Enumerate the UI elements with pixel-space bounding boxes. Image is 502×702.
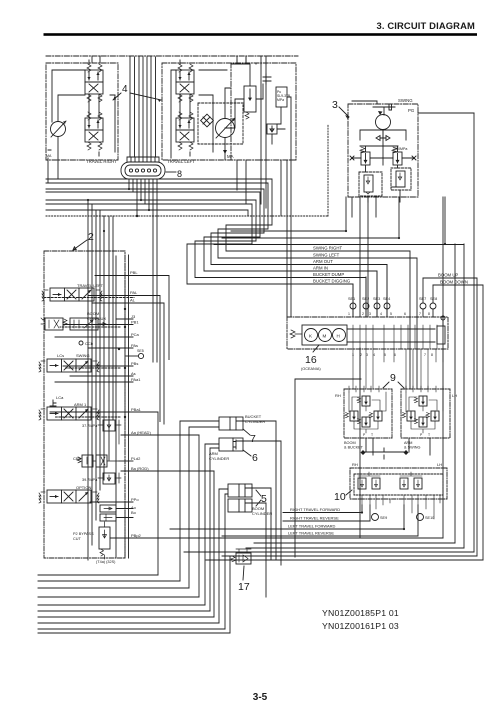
svg-text:LCa: LCa [56,395,64,400]
pressure switch SE3 [374,303,380,309]
ladder bottom-right rung y548 [246,547,464,549]
pilot dotted line y216 [46,124,328,216]
svg-text:SWING: SWING [76,353,90,358]
svg-text:TRAVEL LEFT: TRAVEL LEFT [167,159,195,164]
arm 1 spool [39,407,99,420]
gallery port ticks [353,325,437,349]
svg-text:OPTION: OPTION [76,485,91,490]
wire return run y244 [214,113,474,552]
svg-text:3-5: 3-5 [253,692,268,702]
main pump circle [216,119,235,138]
swivel joint inner [125,165,161,176]
ladder bottom-left rung y623 [38,622,219,624]
wire return run y231 [231,197,443,538]
svg-text:SE1: SE1 [348,297,355,301]
valve item 17 [236,553,251,564]
svg-text:BOOM UP: BOOM UP [438,273,458,278]
port line PLd2 [119,460,133,462]
svg-text:RIGHT TRAVEL FORWARD: RIGHT TRAVEL FORWARD [290,507,340,512]
PG line to right ladder [418,112,474,114]
ladder bottom-left rung y597 [38,596,199,598]
svg-text:3. CIRCUIT DIAGRAM: 3. CIRCUIT DIAGRAM [376,20,475,31]
svg-text:4: 4 [122,84,128,95]
svg-text:LEFT TRAVEL FORWARD: LEFT TRAVEL FORWARD [288,524,336,529]
pressure switch SE1 [350,303,356,309]
feed riser x199 [198,435,200,597]
feed riser x189 [189,427,219,588]
wire arm out pilot staircase [46,189,387,317]
svg-text:17: 17 [238,581,250,593]
ladder bottom-left rung y581 [38,580,180,582]
port line PB1 [63,324,133,326]
svg-text:PLd2: PLd2 [131,456,141,461]
port line PPo [90,501,133,503]
svg-text:RIGHT TRAVEL REVERSE: RIGHT TRAVEL REVERSE [290,516,339,521]
svg-text:PBL: PBL [130,270,138,275]
ladder bottom-left rung y605 [38,604,205,606]
LH reducing valve left [402,411,415,421]
travel right internal wires [48,60,115,183]
svg-text:M: M [323,334,327,339]
junction travel line a [361,511,363,513]
divider dash-dot [230,63,232,160]
solenoid K [305,329,318,342]
straight travel valve [45,318,63,330]
svg-text:RH: RH [352,462,358,467]
junction travel line b [403,528,405,530]
left sub valve [364,175,373,192]
feed riser x180 [180,421,219,581]
svg-text:2: 2 [88,231,94,243]
svg-text:3: 3 [369,312,371,316]
leader of 7 [243,429,250,435]
junction pg branch [444,243,446,245]
cylinder right links [248,421,281,597]
RH internal links [349,392,386,433]
solenoid manifold body [302,325,347,345]
check valve pair upper right [263,74,271,84]
wire left travel reverse [222,505,418,536]
relief valve left [360,147,370,165]
ladder bottom-left rung y611 [38,610,210,612]
svg-text:Ba (ROD): Ba (ROD) [131,466,149,471]
svg-text:5: 5 [390,312,392,316]
svg-text:ARM IN: ARM IN [313,266,328,271]
feed riser x230 [229,556,231,633]
dashed internal feed lines [124,255,126,558]
page continuation dash-dot line [46,55,298,57]
wire swing right pilot staircase [46,179,410,389]
LH reducing valve top [414,396,427,406]
svg-text:10: 10 [334,491,346,503]
svg-text:TRAVEL LEFT: TRAVEL LEFT [77,283,104,288]
junction at swing return right [398,237,400,239]
travel pilot inner dashed body [354,474,443,495]
travel left internal wires [171,60,227,158]
travel left + main pump box (dash-dot border) [162,63,296,160]
ladder bottom-left rung y588 [38,587,189,589]
arm relief 37.7 [103,420,115,431]
port line PBs [63,365,133,367]
travel damper RH right [372,478,380,489]
wire bucket digging pilot staircase [46,204,353,317]
svg-text:Bo: Bo [131,510,137,515]
leader of 10 [346,490,352,495]
swing internal wires [366,130,406,202]
leader line of 2 [73,240,87,250]
svg-text:LH: LH [437,462,442,467]
svg-text:SWING LEFT: SWING LEFT [313,253,340,258]
end fitting [437,326,445,344]
pressure switch SE10 [417,514,424,521]
ladder bottom-right rung y556 [222,555,477,557]
leader lines of label 4 [113,93,161,100]
swivel joint ports row [127,157,159,162]
svg-text:6: 6 [252,452,258,464]
port line Bo [116,517,133,519]
port line Ao [116,508,133,510]
svg-text:ARM: ARM [404,441,412,445]
RH reducing valve left [345,411,358,421]
ladder bottom-left rung y629 [38,628,225,630]
ladder bottom-left rung y633 [38,632,230,634]
svg-text:BOOM: BOOM [344,441,356,445]
wire spare pilot staircase [46,210,248,216]
crossed port marks [350,156,416,160]
junction bundle tee b [140,199,142,201]
port line Ba [121,470,214,472]
ladder bottom-right rung y543 [254,542,455,544]
wire swing left pilot staircase [46,183,417,389]
ladder bottom-left rung y575 [38,574,158,576]
ladder bottom-left rung y617 [38,616,214,618]
svg-text:PAL: PAL [130,290,138,295]
LH reducing valve right [426,411,439,421]
solenoid outputs down [353,349,443,389]
svg-text:8: 8 [431,353,433,357]
LCa check [50,400,56,406]
remote control valve RH box (dash-dot) [344,389,392,438]
port line PAs [88,347,133,349]
lower relief pair [267,124,277,134]
boom cylinder lower [228,499,252,512]
wire BOOM UP line [423,278,477,556]
svg-text:PPo: PPo [131,497,139,502]
svg-text:PBa1: PBa1 [131,407,142,412]
svg-text:J3: J3 [131,314,136,319]
svg-text:3: 3 [332,99,338,111]
dashed pilot crossing travel spool [44,297,134,299]
RH reducing valve top [357,396,370,406]
wire return run y238 [222,197,455,543]
svg-text:T: T [428,433,430,437]
RH port ticks [349,386,379,392]
junction bundle tee a [128,188,130,190]
feed riser x219 [219,489,228,623]
header rule [44,33,478,36]
svg-text:PB1: PB1 [131,320,139,325]
svg-text:PCa: PCa [131,332,140,337]
feed rail solid [115,256,117,558]
swing brake symbol [373,104,395,115]
port line PCa [55,336,133,338]
svg-text:P: P [420,433,423,437]
inlet spring [290,330,302,338]
pump swash regulator dashed housing [198,103,243,144]
port line PBa1 [50,411,128,413]
junction bundle tee c [148,209,150,211]
pilot supply bus [295,379,430,557]
port line AL [92,303,164,424]
junction left bus a [87,199,89,201]
svg-text:H: H [337,334,340,339]
relief cross lines [352,146,414,158]
port line As [70,375,133,377]
travel right valve upper [85,64,103,102]
regulator valve [244,86,256,112]
top ports of box B [237,58,246,64]
leaders of 5 [256,490,261,506]
LH internal links [406,392,443,433]
pump drain line MA [225,88,231,160]
travel left spool [42,288,102,301]
svg-text:CYLINDER: CYLINDER [245,419,265,424]
svg-text:CYLINDER: CYLINDER [209,456,229,461]
travel right valve lower [85,112,103,150]
svg-text:& BUCKET: & BUCKET [344,446,364,450]
leader of 16 [313,345,319,352]
ladder bottom-right rung y552 [184,551,474,553]
wire arm in pilot staircase [46,192,377,317]
pressure switch SE4 [384,303,390,309]
CRa holding valve [82,455,93,467]
travel damper RH left [358,478,366,489]
anti-drift valve sub-box left [359,172,382,196]
svg-text:LEFT TRAVEL REVERSE: LEFT TRAVEL REVERSE [288,531,334,536]
pump small swash symbol [203,117,210,124]
feed riser x214 [213,471,215,617]
make-up check valves [376,136,390,141]
LH pedal link [400,472,422,487]
svg-text:SWING RIGHT: SWING RIGHT [313,246,342,251]
svg-text:8: 8 [428,312,430,316]
swing box bottom stubs [352,197,376,217]
anti-drift valve sub-box right [391,168,411,190]
swing box feed lines down [360,197,368,317]
junction left bus b [103,230,105,232]
swing motor ports [360,130,406,140]
svg-text:PAs: PAs [131,343,138,348]
wire pump pilot verticals from box B [237,160,291,317]
RH reducing valve right [369,411,382,421]
port rail [128,255,130,558]
svg-text:& SWING: & SWING [404,446,421,450]
svg-text:AL: AL [130,298,136,303]
boom conflux spool [70,318,98,330]
svg-text:YN01Z00161P1 03: YN01Z00161P1 03 [322,621,399,631]
travel right motor [51,122,66,137]
right bus inside box B [261,64,291,160]
svg-text:MA: MA [227,154,234,159]
feed riser x205 [205,444,219,605]
RH reducing valve bottom [357,417,370,427]
svg-text:4: 4 [380,312,382,316]
svg-text:SE10: SE10 [425,516,434,520]
svg-text:(OCEANIA): (OCEANIA) [301,367,321,371]
junction dots on rail [124,308,126,310]
pressure switch SE2 [363,303,369,309]
svg-text:SE9: SE9 [380,516,387,520]
junction at swing return left [345,230,347,232]
svg-text:ARM OUT: ARM OUT [313,259,333,264]
feed riser x210 [210,448,219,611]
ladder bottom-right rung y560 [206,559,483,561]
riser stubs box B [237,56,266,64]
port line PAL [88,296,160,422]
right sub valve [396,171,405,187]
pilot supply node diamonds [361,450,409,455]
ladder bottom-right rung y538 [262,537,443,539]
svg-text:SWING: SWING [398,98,413,103]
svg-text:CYLINDER: CYLINDER [252,511,272,516]
pressure switch SE5 [138,353,143,358]
svg-text:P: P [363,433,366,437]
svg-text:ARM 1: ARM 1 [74,402,87,407]
control valve block 2 border (dash-dot) [44,251,125,558]
svg-text:SE5: SE5 [137,349,144,353]
svg-text:7: 7 [250,433,256,445]
feed riser x225 [225,494,228,629]
svg-text:BOOM DOWN: BOOM DOWN [440,280,468,285]
pressure switch SE8 [430,303,436,309]
travel pilot valve block 10 (dash-dot) [350,468,447,499]
svg-text:SE8: SE8 [430,297,437,301]
swing top line [352,101,377,104]
svg-text:CCb: CCb [85,341,94,346]
svg-text:BUCKET DUMP: BUCKET DUMP [313,272,344,277]
svg-text:(T4a) (32S): (T4a) (32S) [96,560,116,564]
svg-text:7: 7 [419,312,421,316]
svg-text:K: K [309,334,312,339]
solenoid M [319,329,332,342]
solenoid box Pu [276,87,287,107]
svg-text:MPa: MPa [277,98,284,102]
svg-text:6: 6 [404,312,406,316]
swing motor circle [376,115,391,130]
svg-text:16: 16 [305,354,317,366]
port line Aa [121,434,199,436]
svg-text:39.7MPa: 39.7MPa [82,478,98,482]
swing motor box (dash-dot border) [348,104,418,197]
svg-text:37.7MPa: 37.7MPa [82,424,98,428]
travel left valve upper [176,64,194,102]
riser bundle above swivel joint [130,57,156,157]
svg-text:BUCKET DIGGING: BUCKET DIGGING [313,279,351,284]
wire return run y244b [463,244,465,548]
svg-text:YN01Z00185P1 01: YN01Z00185P1 01 [322,608,399,618]
manifold gallery [347,329,435,342]
travel right pump box (dash-dot border) [46,63,118,160]
boom cylinder upper [228,484,252,497]
pressure switch SE7 [420,303,426,309]
RH pedal link [358,472,380,487]
arm cylinder [219,438,243,451]
svg-text:As: As [131,371,136,376]
leader line of 8 [166,171,176,173]
travel left valve lower [176,112,194,150]
bucket cylinder [219,417,243,430]
option spool [39,490,99,503]
pressure switch SE9 [372,514,379,521]
svg-text:MA: MA [46,154,52,158]
svg-text:7: 7 [424,353,426,357]
port line PBp2 [110,348,360,538]
leaders of 9 [383,382,404,388]
LH port ticks [406,386,443,392]
svg-text:Aa (HEAD): Aa (HEAD) [131,430,151,435]
svg-text:PBs: PBs [131,361,138,366]
svg-text:TRAVEL RIGHT: TRAVEL RIGHT [86,159,117,164]
node CCb [79,341,83,345]
svg-text:PAa1: PAa1 [131,377,141,382]
LH reducing valve bottom [414,417,427,427]
svg-text:9: 9 [390,372,396,384]
svg-text:PG: PG [408,108,415,113]
feed riser x158 [128,412,158,575]
swivel joint item 8 outer [121,162,165,179]
solenoid valve block 16 border (dash-dot) [287,317,448,349]
wire BOOM DOWN line [433,285,483,560]
wire bucket dump pilot staircase [46,200,366,317]
svg-text:RH: RH [335,393,341,398]
travel damper LH right [414,478,422,489]
junction dot [136,215,138,217]
arm relief 39.7 [103,473,115,484]
svg-text:LH: LH [452,393,457,398]
swing spool [39,359,99,372]
leader line of 3 [339,107,349,119]
remote control valve LH box (dash-dot) [401,389,450,438]
travel pilot bottom ports [362,495,440,519]
wire right travel reverse [283,505,370,521]
travel damper LH left [400,478,408,489]
wire bundle below swivel joint [129,179,157,362]
svg-text:PBp2: PBp2 [131,533,142,538]
wire left travel forward [170,505,404,529]
svg-text:CUT: CUT [73,537,81,541]
svg-text:P2 BYPASS: P2 BYPASS [73,532,94,536]
leader of 17 [243,566,244,580]
svg-text:8: 8 [177,169,182,179]
relief valve right [392,147,402,165]
left feed bus verticals [88,200,113,560]
leader of 6 [243,450,251,456]
port line J3 [116,318,133,320]
svg-text:LCs: LCs [57,353,64,358]
port line PAa1 [55,381,133,383]
solenoid H [333,329,346,342]
wire right travel forward [283,505,362,513]
option service checks [100,505,116,512]
swivel joint inner circles [129,169,132,172]
svg-text:T: T [371,433,373,437]
riser stubs box A [92,56,100,63]
P2 bypass cut valve [99,527,110,549]
port line PBL [95,276,169,360]
svg-text:1: 1 [348,312,350,316]
svg-text:2: 2 [362,312,364,316]
